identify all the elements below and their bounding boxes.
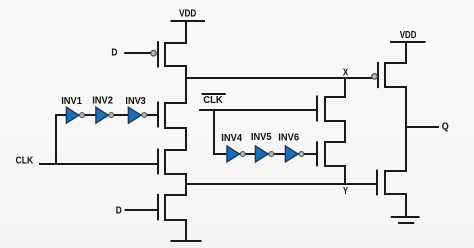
ground right long bar (392, 216, 419, 218)
wire inverter chain 1 (56, 114, 158, 116)
wire node Y horizontal (186, 183, 377, 185)
wire trunk T5-T6 (344, 121, 346, 142)
transistor T3 channel (165, 150, 186, 174)
svg-text:INV1: INV1 (61, 96, 82, 107)
svg-text:CLK: CLK (203, 95, 223, 106)
transistor T5 gate bar (316, 97, 318, 121)
svg-text:INV4: INV4 (221, 133, 242, 144)
transistor T3 gate bar (157, 150, 159, 174)
svg-text:Q: Q (442, 121, 449, 132)
inverter INV5 (255, 146, 273, 162)
wire VDD stem right (405, 42, 407, 63)
wire trunk T2-T3 (185, 128, 187, 150)
ground bottom-center bar (172, 240, 201, 242)
transistor T6 channel (325, 142, 345, 166)
inverter INV3 (128, 107, 146, 123)
svg-text:INV3: INV3 (125, 96, 146, 107)
wire trunk T7-T8 (405, 87, 407, 171)
wire CLK (40, 163, 158, 165)
bubble T1 gate (151, 50, 157, 56)
transistor T2 gate bar (157, 103, 159, 127)
transistor T7 PMOS channel (385, 63, 406, 87)
ground right short bar (399, 222, 413, 224)
svg-text:INV5: INV5 (251, 132, 272, 143)
wire D bottom (126, 209, 158, 211)
transistor T1 PMOS (D input) channel (165, 43, 186, 66)
inverter INV2 (96, 107, 114, 123)
transistor T8 gate bar (376, 171, 378, 195)
wire trunk T8-ground (405, 194, 407, 216)
transistor T1 gate bar (157, 42, 159, 66)
wire CLKbar junction vertical (213, 110, 215, 154)
transistor T7 gate bar (377, 63, 379, 87)
svg-text:INV2: INV2 (92, 96, 113, 107)
wire trunk T6-Y (344, 166, 346, 184)
svg-text:INV6: INV6 (278, 133, 299, 144)
svg-text:D: D (111, 48, 117, 59)
wire D top (125, 52, 150, 54)
wire node X horizontal (186, 77, 372, 79)
transistor T4 gate bar (157, 195, 159, 220)
inverter INV4 (227, 146, 245, 162)
wire CLKbar (200, 109, 317, 111)
wire trunk X-T5 (344, 78, 346, 97)
CLKbar overline (203, 93, 225, 95)
wire trunk T3-T4 (185, 174, 187, 195)
inverter INV6 (285, 146, 304, 162)
wire inverter chain 2 (214, 153, 317, 155)
wire VDD stem left (185, 21, 187, 43)
wire trunk T1-T2 (185, 66, 187, 103)
wire CLK junction vertical (55, 115, 57, 164)
transistor T6 gate bar (316, 142, 318, 165)
svg-text:Y: Y (343, 186, 348, 197)
svg-text:VDD: VDD (400, 30, 417, 41)
svg-text:VDD: VDD (179, 9, 196, 20)
svg-text:CLK: CLK (16, 155, 34, 166)
inverter INV1 (66, 107, 84, 123)
transistor T4 channel (165, 195, 186, 220)
VDD rail left (172, 20, 205, 22)
svg-text:D: D (116, 206, 122, 217)
transistor T2 channel (165, 103, 186, 128)
bubble T7 gate (372, 74, 378, 80)
transistor T5 channel (325, 97, 345, 121)
wire trunk T4-ground (185, 220, 187, 241)
svg-text:X: X (343, 67, 349, 78)
VDD rail right (391, 41, 425, 43)
wire node Q (406, 126, 438, 128)
transistor T8 channel (385, 171, 406, 194)
